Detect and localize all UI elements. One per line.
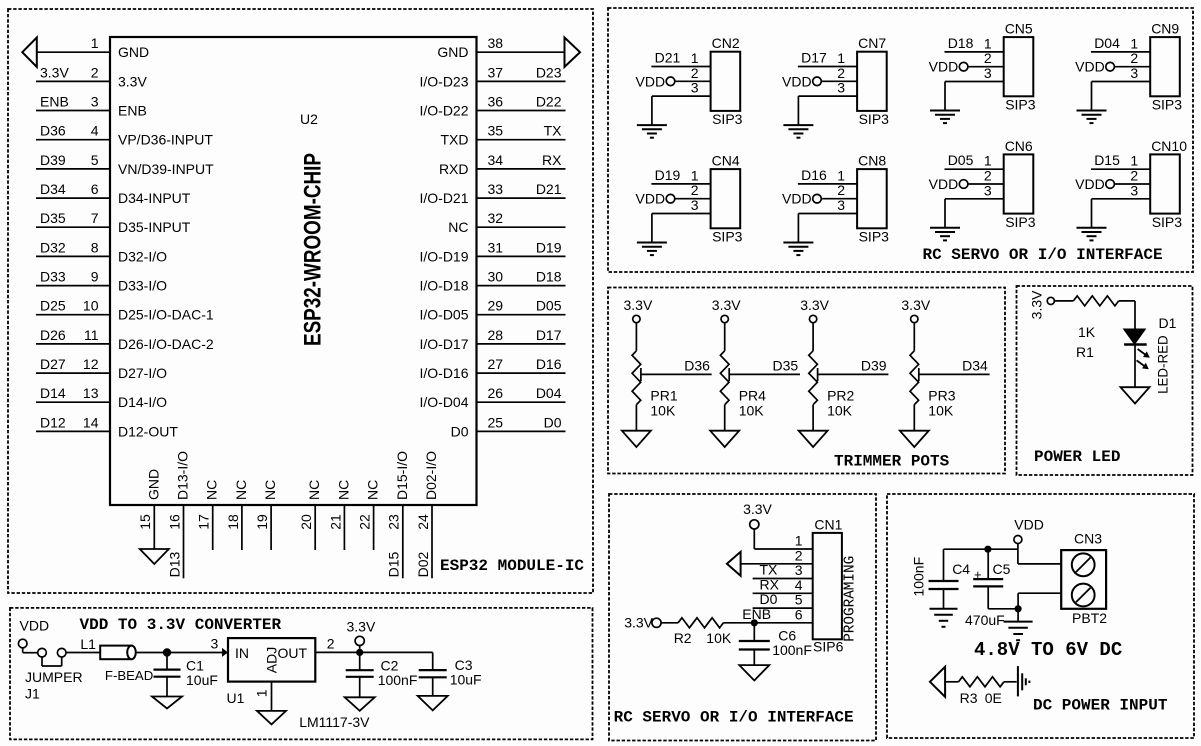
svg-text:D39: D39 [40, 152, 66, 168]
svg-text:D13: D13 [166, 551, 182, 577]
CN10 pin 2 VDD node [1075, 168, 1150, 193]
svg-text:D0: D0 [760, 591, 778, 607]
svg-text:F-BEAD: F-BEAD [105, 668, 153, 683]
connector CN8 SIP3 [857, 153, 889, 245]
U2 pin 23 (D15-I/O) bottom wire and labels [386, 451, 410, 578]
svg-text:VDD: VDD [1014, 516, 1044, 532]
svg-text:35: 35 [488, 123, 504, 139]
svg-text:D34-INPUT: D34-INPUT [118, 190, 191, 206]
U2 pin 32 (NC) wire and labels [448, 210, 565, 235]
svg-text:10K: 10K [650, 403, 676, 419]
CN6 pin 1 wire (D05) [945, 152, 1004, 169]
connector CN4 SIP3 [711, 153, 743, 245]
CN2 ground [637, 96, 667, 138]
U2 pin 17 (NC) bottom wire and labels [196, 480, 220, 550]
inductor L1 F-BEAD [80, 636, 153, 683]
svg-text:SIP6: SIP6 [813, 639, 844, 655]
U2 pin 14 (D12-OUT) wire and labels [36, 414, 178, 439]
svg-text:0E: 0E [985, 690, 1002, 706]
U2 pin 15 (GND) bottom wire and labels [137, 469, 161, 549]
svg-text:RC SERVO OR I/O INTERFACE: RC SERVO OR I/O INTERFACE [614, 709, 854, 727]
svg-text:31: 31 [488, 239, 504, 255]
ground C1 [152, 697, 182, 709]
svg-text:C4: C4 [952, 561, 970, 577]
svg-text:2: 2 [691, 65, 699, 81]
svg-text:DC POWER INPUT: DC POWER INPUT [1033, 697, 1168, 715]
CN9 ground [1077, 82, 1107, 124]
U2 pin 2 (3.3V) wire and labels [36, 64, 147, 89]
dashed border box TRIMMER POTS section [608, 288, 1005, 474]
node 3.3V output [347, 619, 376, 649]
svg-text:VDD TO 3.3V CONVERTER: VDD TO 3.3V CONVERTER [80, 616, 282, 634]
PR3 ground [900, 405, 929, 447]
svg-text:D15: D15 [1094, 152, 1120, 168]
capacitor C3 10uF [419, 652, 482, 696]
svg-text:SIP3: SIP3 [859, 229, 890, 245]
svg-text:POWER LED: POWER LED [1034, 448, 1120, 466]
connector CN6 SIP3 [1004, 138, 1036, 230]
svg-text:NC: NC [306, 480, 322, 500]
svg-text:D36: D36 [40, 123, 66, 139]
U2 pin 1 (GND) wire and labels [22, 35, 149, 67]
svg-text:3: 3 [984, 182, 992, 198]
svg-text:10K: 10K [928, 403, 954, 419]
svg-text:13: 13 [83, 385, 99, 401]
CN6 pin 2 VDD node [929, 168, 1004, 193]
svg-text:15: 15 [137, 514, 153, 530]
svg-text:3.3V: 3.3V [118, 73, 147, 89]
svg-text:4.8V TO 6V DC: 4.8V TO 6V DC [974, 639, 1122, 661]
node VDD [1014, 516, 1044, 549]
wire CN3 pin 2 to ground node [1015, 593, 1062, 612]
svg-text:NC: NC [233, 480, 249, 500]
svg-text:D35: D35 [40, 210, 66, 226]
U2 pin 33 (I/O-D21) wire and labels [419, 181, 565, 206]
svg-text:LED-RED: LED-RED [1155, 335, 1171, 394]
CN6 pin 3 wire [945, 182, 1004, 199]
svg-text:D34: D34 [40, 181, 66, 197]
svg-text:D32: D32 [40, 239, 66, 255]
capacitor C4 100nF [911, 549, 971, 609]
svg-text:3.3V: 3.3V [40, 64, 69, 80]
svg-text:ADJ: ADJ [263, 647, 279, 673]
CN5 pin 1 wire (D18) [945, 35, 1004, 52]
svg-text:22: 22 [357, 514, 373, 530]
ground power led [1121, 387, 1150, 403]
svg-text:38: 38 [488, 35, 504, 51]
U2 pin 18 (NC) bottom wire and labels [225, 480, 249, 550]
svg-text:2: 2 [984, 50, 992, 66]
U2 pin 25 (D0) wire and labels [451, 414, 566, 439]
LED D1 LED-RED [1124, 315, 1177, 394]
CN6 ground [930, 199, 960, 241]
svg-text:10K: 10K [739, 403, 765, 419]
svg-text:3: 3 [984, 65, 992, 81]
svg-text:2: 2 [1130, 50, 1138, 66]
CN10 ground [1077, 199, 1107, 241]
dashed border box RC servo interface section (bottom) [609, 494, 876, 741]
U2 pin 12 (D27-I/O) wire and labels [36, 356, 167, 381]
CN9 pin 1 wire (D04) [1091, 35, 1150, 52]
connector CN5 SIP3 [1004, 21, 1036, 113]
svg-text:9: 9 [91, 269, 99, 285]
svg-text:D35-INPUT: D35-INPUT [118, 219, 191, 235]
svg-text:PROGRAMING: PROGRAMING [842, 556, 859, 642]
svg-text:27: 27 [488, 356, 504, 372]
svg-text:ENB: ENB [742, 606, 771, 622]
CN7 pin 3 wire [798, 80, 857, 97]
svg-text:SIP3: SIP3 [712, 111, 743, 127]
svg-text:30: 30 [488, 269, 504, 285]
svg-text:3: 3 [691, 197, 699, 213]
svg-text:CN8: CN8 [858, 153, 886, 169]
svg-text:10K: 10K [706, 630, 732, 646]
label 4.8V TO 6V DC [974, 639, 1122, 661]
svg-text:LM1117-3V: LM1117-3V [299, 714, 370, 730]
svg-text:ENB: ENB [40, 94, 69, 110]
CN8 ground [783, 214, 813, 256]
section title RC SERVO OR I/O INTERFACE (bottom) [614, 709, 854, 727]
svg-text:SIP3: SIP3 [859, 111, 890, 127]
svg-text:RXD: RXD [439, 161, 469, 177]
svg-text:29: 29 [488, 298, 504, 314]
svg-text:4: 4 [91, 123, 99, 139]
CN5 pin 3 wire [945, 65, 1004, 82]
svg-text:1: 1 [795, 533, 803, 549]
svg-text:I/O-D05: I/O-D05 [419, 307, 468, 323]
PR1 wiper wire (D36) [641, 358, 712, 382]
connector CN9 SIP3 [1150, 21, 1182, 113]
svg-text:3: 3 [691, 80, 699, 96]
svg-text:D12: D12 [40, 414, 66, 430]
svg-text:CN6: CN6 [1005, 138, 1033, 154]
U2 pin 6 (D34-INPUT) wire and labels [36, 181, 191, 206]
svg-text:R3: R3 [960, 690, 978, 706]
svg-text:3: 3 [837, 197, 845, 213]
CN7 pin 1 wire (D17) [798, 50, 857, 67]
node 3.3V for PR3 [901, 297, 930, 351]
U2 pin 10 (D25-I/O-DAC-1) wire and labels [36, 298, 214, 323]
svg-text:12: 12 [83, 356, 99, 372]
svg-text:D14-I/O: D14-I/O [118, 394, 167, 410]
svg-text:2: 2 [984, 168, 992, 184]
U2 pin 19 (NC) bottom wire and labels [254, 480, 278, 550]
svg-text:36: 36 [488, 94, 504, 110]
svg-text:I/O-D23: I/O-D23 [419, 73, 468, 89]
capacitor C2 100nF [346, 652, 418, 697]
svg-text:RC SERVO OR I/O INTERFACE: RC SERVO OR I/O INTERFACE [923, 246, 1163, 264]
connector CN1 SIP6 PROGRAMING [813, 517, 859, 655]
svg-text:CN5: CN5 [1005, 21, 1033, 37]
svg-text:+: + [974, 567, 982, 582]
U2 pin 11 (D26-I/O-DAC-2) wire and labels [36, 327, 214, 352]
svg-text:1: 1 [91, 35, 99, 51]
svg-text:2: 2 [837, 182, 845, 198]
svg-text:PR4: PR4 [739, 388, 766, 404]
U2 pin 24 (D02-I/O) bottom wire and labels [415, 451, 439, 578]
svg-text:VDD: VDD [782, 191, 812, 207]
svg-text:VDD: VDD [929, 176, 959, 192]
trimmer potentiometer PR1 10K [632, 351, 678, 419]
svg-text:ESP32-WROOM-CHIP: ESP32-WROOM-CHIP [300, 153, 327, 346]
wire VDD rail with junction node [944, 546, 1018, 553]
svg-text:U2: U2 [300, 111, 318, 127]
svg-text:NC: NC [262, 480, 278, 500]
U2 part name ESP32-WROOM-CHIP [300, 153, 327, 346]
U2 pin 21 (NC) bottom wire and labels [327, 480, 351, 550]
svg-text:R1: R1 [1076, 344, 1094, 360]
svg-text:PR2: PR2 [827, 388, 854, 404]
svg-text:D16: D16 [536, 356, 562, 372]
CN5 ground [930, 82, 960, 124]
U2 pin 8 (D32-I/O) wire and labels [36, 239, 167, 264]
svg-text:I/O-D04: I/O-D04 [419, 394, 468, 410]
svg-text:D21: D21 [536, 181, 562, 197]
CN8 pin 3 wire [798, 197, 857, 214]
svg-text:1: 1 [837, 167, 845, 183]
wire U1 OUT to C2 C3 with junction node [315, 649, 432, 656]
connector CN2 SIP3 [711, 35, 743, 127]
svg-text:OUT: OUT [277, 645, 307, 661]
svg-text:GND: GND [118, 44, 149, 60]
CN4 pin 1 wire (D19) [651, 167, 710, 184]
node 3.3V for PR1 [623, 297, 652, 351]
svg-text:U1: U1 [227, 690, 245, 706]
node 3.3V power led [1029, 290, 1055, 319]
svg-text:D33-I/O: D33-I/O [118, 278, 167, 294]
CN9 pin 3 wire [1092, 65, 1151, 82]
svg-text:D27: D27 [40, 356, 66, 372]
svg-text:CN3: CN3 [1074, 531, 1102, 547]
U2 pin 35 (TXD) wire and labels [441, 123, 566, 148]
svg-text:1: 1 [691, 167, 699, 183]
U2 pin 16 (D13-I/O) bottom wire and labels [166, 451, 190, 578]
svg-text:14: 14 [83, 414, 99, 430]
svg-text:JUMPER: JUMPER [25, 669, 83, 685]
svg-text:2: 2 [1130, 168, 1138, 184]
svg-text:17: 17 [196, 514, 212, 530]
wire 3.3V to R1 [1054, 300, 1073, 302]
svg-text:10uF: 10uF [186, 672, 218, 688]
PR2 ground [799, 405, 828, 447]
ground C2 [345, 697, 375, 711]
svg-text:32: 32 [488, 210, 504, 226]
section title ESP32 MODULE-IC [440, 557, 584, 575]
CN2 pin 2 VDD node [636, 65, 711, 90]
svg-text:L1: L1 [80, 636, 96, 652]
wire J1 to L1 [66, 652, 100, 654]
svg-text:D0: D0 [451, 423, 469, 439]
svg-text:SIP3: SIP3 [1152, 214, 1183, 230]
CN7 pin 2 VDD node [782, 65, 857, 90]
svg-text:4: 4 [795, 577, 803, 593]
U2 pin 31 (I/O-D19) wire and labels [419, 239, 565, 264]
CN4 ground [637, 214, 667, 256]
svg-text:I/O-D19: I/O-D19 [419, 248, 468, 264]
connector CN10 SIP3 [1150, 138, 1187, 230]
CN1 pin 1 wire from 3.3V [743, 501, 813, 549]
svg-text:5: 5 [91, 152, 99, 168]
U2 pin 9 (D33-I/O) wire and labels [36, 269, 167, 294]
section title DC POWER INPUT [1033, 697, 1168, 715]
svg-text:D05: D05 [536, 298, 562, 314]
svg-text:25: 25 [488, 414, 504, 430]
svg-text:PR3: PR3 [928, 388, 955, 404]
capacitor C1 10uF [154, 653, 218, 697]
svg-text:3: 3 [837, 80, 845, 96]
svg-text:1: 1 [984, 153, 992, 169]
svg-text:PBT2: PBT2 [1072, 610, 1107, 626]
IC U2 body rectangle [110, 37, 477, 505]
svg-text:19: 19 [254, 514, 270, 530]
svg-text:I/O-D17: I/O-D17 [419, 336, 468, 352]
svg-text:D15-I/O: D15-I/O [394, 451, 410, 500]
svg-text:D15: D15 [386, 551, 402, 577]
svg-text:D22: D22 [536, 94, 562, 110]
svg-text:RX: RX [760, 576, 780, 592]
CN4 pin 3 wire [652, 197, 711, 214]
U2 pin 37 (I/O-D23) wire and labels [419, 64, 565, 89]
svg-text:D0: D0 [544, 414, 562, 430]
svg-text:28: 28 [488, 327, 504, 343]
svg-text:TRIMMER POTS: TRIMMER POTS [834, 453, 950, 471]
svg-text:CN9: CN9 [1151, 21, 1179, 37]
svg-text:11: 11 [84, 327, 99, 343]
svg-text:D02-I/O: D02-I/O [423, 451, 439, 500]
trimmer potentiometer PR2 10K [809, 351, 855, 419]
svg-text:10uF: 10uF [450, 672, 482, 688]
svg-text:D35: D35 [773, 358, 799, 374]
svg-text:5: 5 [795, 592, 803, 608]
CN1 pin 4 wire RX [753, 576, 813, 593]
svg-text:GND: GND [145, 469, 161, 500]
svg-text:I/O-D16: I/O-D16 [419, 365, 468, 381]
CN10 pin 3 wire [1092, 182, 1151, 199]
svg-text:1: 1 [254, 689, 270, 697]
svg-text:VDD: VDD [636, 73, 666, 89]
CN9 pin 2 VDD node [1075, 50, 1150, 74]
svg-text:100nF: 100nF [772, 642, 812, 658]
svg-text:D19: D19 [655, 167, 681, 183]
PR2 wiper wire (D39) [818, 358, 889, 382]
trimmer potentiometer PR4 10K [720, 351, 766, 419]
svg-text:D04: D04 [1094, 35, 1120, 51]
svg-text:3: 3 [91, 94, 99, 110]
svg-text:1: 1 [1130, 153, 1138, 169]
svg-text:1: 1 [837, 50, 845, 66]
svg-text:100nF: 100nF [911, 557, 927, 597]
resistor R3 0E with arrow and earth [930, 666, 1030, 706]
connector CN7 SIP3 [857, 35, 889, 127]
svg-text:TXD: TXD [441, 132, 469, 148]
svg-text:6: 6 [795, 606, 803, 622]
U2 pin 27 (I/O-D16) wire and labels [419, 356, 565, 381]
svg-text:2: 2 [795, 547, 803, 563]
svg-text:SIP3: SIP3 [1152, 97, 1183, 113]
U2 pin 7 (D35-INPUT) wire and labels [36, 210, 191, 235]
svg-text:VDD: VDD [929, 59, 959, 75]
U2 pin 20 (NC) bottom wire and labels [298, 480, 322, 550]
svg-text:SIP3: SIP3 [712, 229, 743, 245]
svg-text:2: 2 [91, 64, 99, 80]
CN8 pin 1 wire (D16) [798, 167, 857, 184]
svg-text:3.3V: 3.3V [1029, 290, 1045, 319]
dashed border box DC POWER INPUT section [887, 494, 1194, 738]
jumper J1 with VDD input [18, 618, 82, 702]
wire VDD to CN3 pin 1 [1018, 549, 1061, 564]
svg-text:24: 24 [415, 514, 431, 530]
dashed border box POWER LED section [1017, 286, 1193, 475]
U2 pin 26 (I/O-D04) wire and labels [419, 385, 565, 410]
U2 pin 13 (D14-I/O) wire and labels [36, 385, 167, 410]
svg-text:D32-I/O: D32-I/O [118, 248, 167, 264]
svg-text:26: 26 [488, 385, 504, 401]
svg-text:D17: D17 [536, 327, 562, 343]
svg-text:D18: D18 [536, 269, 562, 285]
svg-text:470uF: 470uF [965, 612, 1005, 628]
svg-text:3.3V: 3.3V [623, 297, 652, 313]
svg-text:10K: 10K [827, 403, 853, 419]
svg-text:D27-I/O: D27-I/O [118, 365, 167, 381]
svg-text:1K: 1K [1078, 324, 1096, 340]
svg-text:NC: NC [204, 480, 220, 500]
ground C6 [739, 665, 769, 680]
svg-text:100nF: 100nF [378, 672, 418, 688]
CN2 pin 1 wire (D21) [651, 50, 710, 67]
wire D1 to ground [1134, 345, 1136, 388]
svg-text:ESP32 MODULE-IC: ESP32 MODULE-IC [440, 557, 584, 575]
node 3.3V for PR4 [712, 297, 741, 351]
svg-text:7: 7 [91, 210, 99, 226]
U2 pin 3 (ENB) wire and labels [36, 94, 147, 119]
svg-text:3.3V: 3.3V [901, 297, 930, 313]
svg-text:3.3V: 3.3V [712, 297, 741, 313]
svg-text:3: 3 [795, 562, 803, 578]
svg-text:I/O-D22: I/O-D22 [419, 103, 468, 119]
capacitor C6 100nF [739, 623, 812, 665]
svg-text:16: 16 [166, 514, 182, 530]
svg-text:D02: D02 [415, 551, 431, 577]
svg-text:IN: IN [235, 645, 249, 661]
svg-text:D33: D33 [40, 269, 66, 285]
trimmer potentiometer PR3 10K [910, 351, 956, 419]
section title VDD TO 3.3V CONVERTER [80, 616, 282, 634]
svg-text:D25-I/O-DAC-1: D25-I/O-DAC-1 [118, 307, 214, 323]
U2 pin 34 (RXD) wire and labels [439, 152, 566, 177]
svg-text:D26-I/O-DAC-2: D26-I/O-DAC-2 [118, 336, 214, 352]
regulator U1 LM1117-3V [211, 636, 371, 731]
CN1 pin 3 wire TX [753, 562, 813, 579]
section title POWER LED [1034, 448, 1120, 466]
svg-text:18: 18 [225, 514, 241, 530]
PR4 ground [710, 405, 739, 447]
U2 reference designator [300, 111, 318, 127]
svg-text:I/O-D21: I/O-D21 [419, 190, 468, 206]
ground C4 [930, 609, 958, 627]
svg-text:21: 21 [327, 514, 343, 530]
svg-text:3: 3 [1130, 65, 1138, 81]
ground DC input [1004, 609, 1033, 640]
U2 pin 36 (I/O-D22) wire and labels [419, 94, 565, 119]
svg-text:6: 6 [91, 181, 99, 197]
svg-text:CN7: CN7 [858, 35, 886, 51]
ground C3 [418, 696, 448, 711]
svg-text:23: 23 [386, 514, 402, 530]
svg-text:CN4: CN4 [712, 153, 740, 169]
svg-text:VDD: VDD [1075, 59, 1105, 75]
svg-text:D17: D17 [801, 50, 827, 66]
U2 pin 30 (I/O-D18) wire and labels [419, 269, 565, 294]
